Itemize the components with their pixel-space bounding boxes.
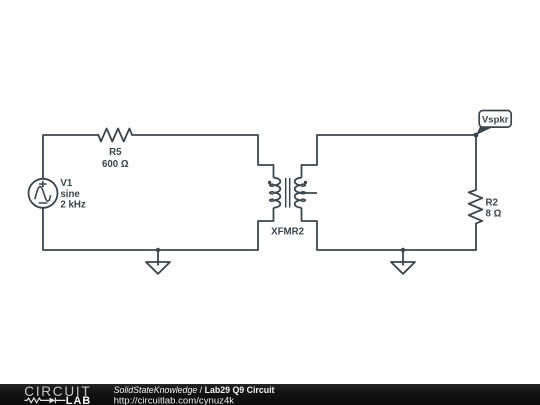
svg-text:600 Ω: 600 Ω (102, 159, 129, 170)
svg-text:8 Ω: 8 Ω (486, 209, 502, 220)
svg-text:Vspkr: Vspkr (482, 115, 509, 126)
svg-text:SolidStateKnowledge / Lab29 Q9: SolidStateKnowledge / Lab29 Q9 Circuit (114, 385, 275, 395)
svg-text:R5: R5 (109, 147, 122, 158)
svg-text:R2: R2 (486, 198, 498, 209)
svg-text:2 kHz: 2 kHz (60, 200, 85, 211)
svg-text:XFMR2: XFMR2 (271, 226, 304, 237)
svg-text:sine: sine (60, 189, 80, 200)
svg-text:http://circuitlab.com/cynuz4k: http://circuitlab.com/cynuz4k (114, 395, 235, 405)
svg-text:V1: V1 (60, 178, 72, 189)
svg-text:LAB: LAB (66, 395, 92, 405)
